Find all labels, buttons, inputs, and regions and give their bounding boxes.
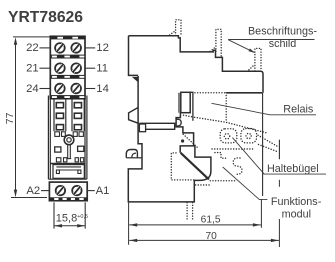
channels <box>54 99 84 131</box>
retaining clip dotted loops <box>220 129 278 152</box>
divider <box>50 163 85 165</box>
band slots <box>52 37 84 98</box>
lower clip dome <box>126 150 137 158</box>
svg-text:14: 14 <box>96 83 109 95</box>
dimension 70 <box>129 239 279 241</box>
svg-text:24: 24 <box>26 83 39 95</box>
foot extension lines <box>54 202 85 228</box>
svg-text:Relais: Relais <box>283 104 314 116</box>
screw 11 <box>71 63 81 73</box>
rounded notch on stair <box>176 119 181 126</box>
side view left profile <box>129 36 139 76</box>
marking plate dotted tabs <box>170 20 261 71</box>
stair step mid <box>176 113 194 146</box>
rail clip trapezoid bump <box>129 108 139 124</box>
relay dotted outline <box>183 93 268 148</box>
channel contact windows <box>56 103 81 130</box>
screw 12 <box>71 43 81 53</box>
svg-text:12: 12 <box>96 42 109 54</box>
tab 3 <box>255 48 261 71</box>
tab 1 <box>176 20 181 36</box>
svg-text:A1: A1 <box>96 185 110 197</box>
A2 A1 terminal row <box>49 182 87 201</box>
inner vertical left of window <box>178 93 180 113</box>
screw slots <box>57 44 80 92</box>
side windows near ring <box>55 146 84 152</box>
terminal block bands <box>50 36 85 99</box>
slot row 1 <box>55 132 84 137</box>
slot row 2 <box>56 158 83 162</box>
clip end stroke <box>278 140 280 160</box>
dimension 77 arrows <box>14 37 17 197</box>
svg-text:A2: A2 <box>26 185 40 197</box>
rail hook <box>132 77 138 83</box>
step under dome <box>126 157 142 159</box>
dimension 15,8 <box>54 225 85 227</box>
svg-text:15,8: 15,8 <box>56 213 77 225</box>
screw terminals rows 1-3 <box>55 43 81 93</box>
svg-text:70: 70 <box>206 231 218 242</box>
svg-text:Beschriftungs-: Beschriftungs- <box>248 25 317 37</box>
svg-text:Funktions-: Funktions- <box>271 196 322 208</box>
function module dotted <box>171 149 253 221</box>
svg-text:22: 22 <box>26 42 39 54</box>
tab 2 <box>216 29 221 56</box>
right edge long <box>262 93 264 196</box>
latch diagonal <box>181 153 209 180</box>
terminal block outer <box>50 36 85 98</box>
screw 14 <box>71 84 81 94</box>
cross bar <box>140 123 175 129</box>
screw 24 <box>55 84 65 94</box>
outer vertical right of window <box>190 92 193 120</box>
center ring keyhole <box>64 135 74 159</box>
svg-text:77: 77 <box>4 112 16 124</box>
svg-text:+0,5: +0,5 <box>77 214 88 220</box>
window rect side <box>181 92 190 112</box>
svg-text:modul: modul <box>282 208 311 220</box>
svg-text:11: 11 <box>96 63 108 75</box>
pivot dot <box>181 139 184 142</box>
svg-text:YRT78626: YRT78626 <box>8 9 83 26</box>
svg-text:61,5: 61,5 <box>201 215 221 226</box>
side view socket outline top <box>129 36 264 93</box>
lower bracket box <box>53 165 84 179</box>
dimension extension lines <box>129 180 280 247</box>
svg-text:21: 21 <box>26 63 39 75</box>
dimension 61,5 <box>129 224 261 226</box>
screw 21 <box>55 63 65 73</box>
svg-text:Haltebügel: Haltebügel <box>267 163 319 175</box>
dimension 77 line <box>11 37 53 198</box>
screw A1 <box>72 186 81 195</box>
top edge relay seat <box>227 92 263 94</box>
screw 22 <box>55 43 65 53</box>
svg-text:schild: schild <box>269 38 297 50</box>
socket body outline front view <box>48 96 87 180</box>
screw A2 <box>56 186 65 195</box>
